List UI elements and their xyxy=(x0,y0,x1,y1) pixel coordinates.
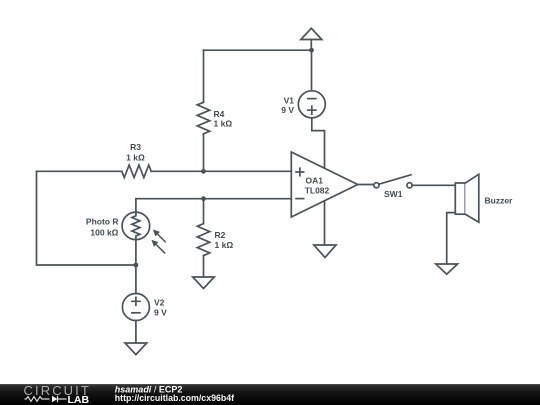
op-amp OA1 xyxy=(291,152,357,217)
resistor R3 xyxy=(122,142,151,178)
wire top rail xyxy=(204,49,312,51)
wire buzzer to ground xyxy=(447,213,456,264)
voltage source V2 xyxy=(122,294,167,321)
wire left rail xyxy=(37,171,136,265)
svg-text:9 V: 9 V xyxy=(154,307,167,317)
wire op-amp V- pin to ground xyxy=(324,201,326,245)
footer bar xyxy=(0,384,540,405)
switch SW1 xyxy=(374,175,412,199)
svg-text:V2: V2 xyxy=(154,298,165,308)
ground V2 xyxy=(125,343,147,355)
logo mini circuit xyxy=(25,396,67,403)
ground buzzer xyxy=(436,264,458,274)
svg-text:http://circuitlab.com/cx96b4f: http://circuitlab.com/cx96b4f xyxy=(115,393,234,403)
wire VCC to V1 xyxy=(311,50,313,91)
svg-text:TL082: TL082 xyxy=(305,185,330,195)
svg-text:Buzzer: Buzzer xyxy=(485,195,514,205)
wire SW1 to buzzer xyxy=(412,184,455,186)
ground op-amp xyxy=(314,245,336,258)
wire op-amp output xyxy=(358,184,374,186)
wire inverting input xyxy=(136,198,291,200)
svg-text:LAB: LAB xyxy=(68,394,90,405)
wire V1 to op-amp V+ pin xyxy=(312,118,325,169)
ground R2 xyxy=(193,277,215,289)
svg-text:100 kΩ: 100 kΩ xyxy=(90,228,118,238)
wire noninverting input xyxy=(37,170,122,172)
svg-text:1 kΩ: 1 kΩ xyxy=(126,153,145,163)
svg-text:Photo R: Photo R xyxy=(86,217,119,227)
svg-text:R2: R2 xyxy=(215,230,226,240)
node PhotoR-V2 junction xyxy=(134,263,139,268)
node minus-input junction xyxy=(201,196,206,201)
node plus-input junction xyxy=(201,169,206,174)
voltage source V1 xyxy=(281,91,325,118)
svg-text:R4: R4 xyxy=(214,109,225,119)
power flag VCC xyxy=(301,28,322,50)
photoresistor PhotoR xyxy=(86,199,165,253)
wire PhotoR to V2 xyxy=(135,240,137,294)
svg-text:1 kΩ: 1 kΩ xyxy=(215,240,234,250)
svg-text:R3: R3 xyxy=(130,142,141,152)
resistor R4 xyxy=(197,50,232,171)
wire R3 to op-amp plus input xyxy=(151,170,291,172)
resistor R2 xyxy=(197,199,233,277)
svg-text:OA1: OA1 xyxy=(306,175,324,185)
node V+ junction xyxy=(309,48,314,53)
svg-text:SW1: SW1 xyxy=(384,189,403,199)
svg-text:V1: V1 xyxy=(284,95,295,105)
wire V2 to ground xyxy=(135,321,137,344)
svg-text:1 kΩ: 1 kΩ xyxy=(214,119,233,129)
svg-text:9 V: 9 V xyxy=(281,105,294,115)
buzzer BZ1 xyxy=(455,174,513,222)
